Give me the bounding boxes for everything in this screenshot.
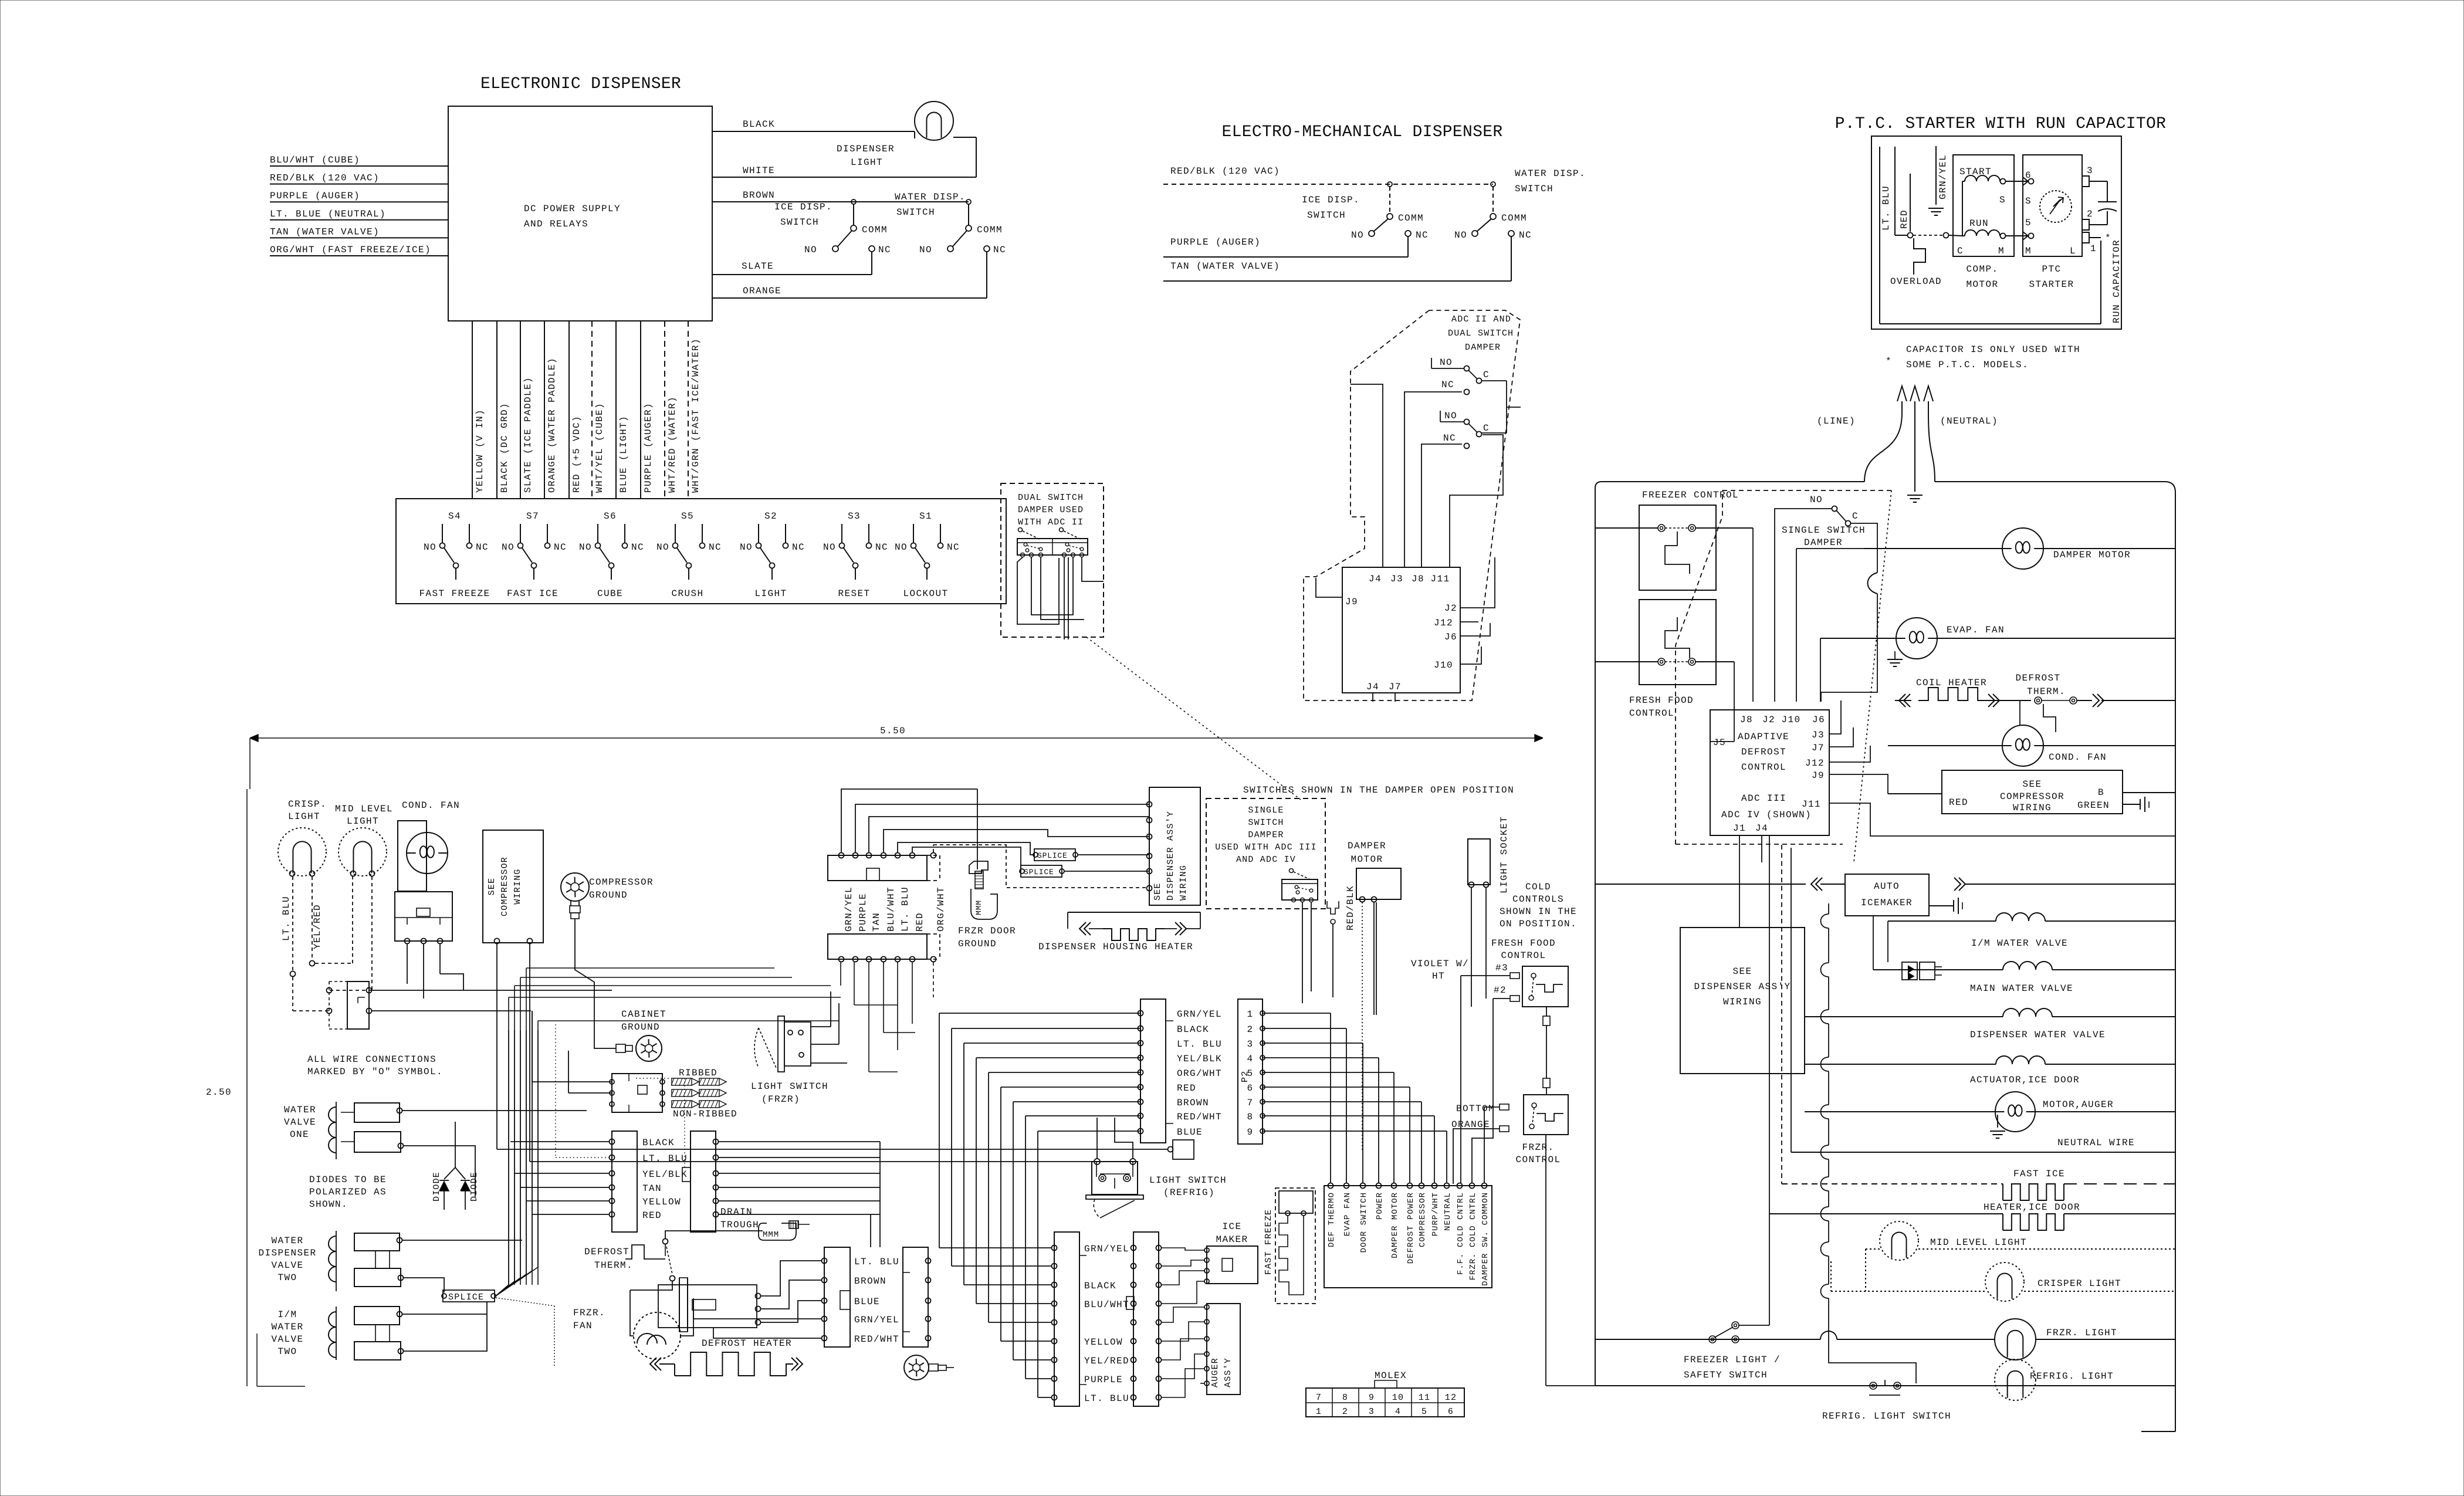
svg-text:FAST ICE: FAST ICE — [507, 588, 559, 599]
svg-text:ADC IV (SHOWN): ADC IV (SHOWN) — [1721, 810, 1812, 820]
svg-text:J11: J11 — [1802, 799, 1821, 810]
svg-text:GRN/YEL: GRN/YEL — [1084, 1244, 1129, 1254]
svg-text:LT. BLU: LT. BLU — [281, 896, 292, 941]
svg-text:RED: RED — [915, 912, 925, 932]
svg-text:9: 9 — [1369, 1393, 1375, 1403]
svg-text:FRZR.: FRZR. — [573, 1308, 605, 1318]
svg-text:ICE DISP.: ICE DISP. — [774, 202, 832, 212]
svg-text:COND. FAN: COND. FAN — [402, 800, 460, 811]
svg-text:RED: RED — [1949, 797, 1968, 808]
svg-text:AND RELAYS: AND RELAYS — [524, 219, 588, 229]
svg-text:J1: J1 — [1733, 823, 1746, 834]
svg-text:AUGER: AUGER — [1210, 1358, 1220, 1387]
svg-text:BROWN: BROWN — [1177, 1098, 1209, 1108]
svg-text:NC: NC — [993, 245, 1006, 255]
svg-text:RED/WHT: RED/WHT — [1177, 1112, 1222, 1122]
svg-text:COMPRESSOR: COMPRESSOR — [500, 857, 510, 916]
svg-text:LT. BLU: LT. BLU — [1084, 1393, 1129, 1404]
svg-text:2: 2 — [1342, 1407, 1348, 1417]
svg-text:J10: J10 — [1781, 715, 1800, 725]
svg-text:LIGHT: LIGHT — [347, 816, 379, 827]
svg-text:DAMPER USED: DAMPER USED — [1018, 505, 1084, 515]
svg-text:DAMPER: DAMPER — [1248, 830, 1284, 840]
svg-text:LIGHT: LIGHT — [754, 588, 787, 599]
svg-text:DAMPER: DAMPER — [1348, 841, 1386, 851]
svg-text:ADC II AND: ADC II AND — [1451, 314, 1511, 324]
svg-text:J3: J3 — [1812, 730, 1825, 740]
svg-text:EVAP FAN: EVAP FAN — [1343, 1192, 1352, 1236]
svg-text:YEL/BLK: YEL/BLK — [642, 1169, 688, 1180]
svg-text:SPLICE: SPLICE — [1037, 851, 1068, 860]
svg-text:WATER: WATER — [271, 1236, 303, 1246]
svg-text:BLACK: BLACK — [642, 1138, 675, 1148]
svg-text:NON-RIBBED: NON-RIBBED — [673, 1109, 737, 1119]
svg-text:M: M — [2025, 246, 2032, 256]
svg-text:NEUTRAL WIRE: NEUTRAL WIRE — [2057, 1138, 2135, 1148]
svg-text:WHITE: WHITE — [743, 165, 775, 176]
svg-text:BLU/WHT (CUBE): BLU/WHT (CUBE) — [270, 155, 360, 165]
svg-text:RED/BLK: RED/BLK — [1345, 885, 1356, 930]
svg-text:MAIN WATER VALVE: MAIN WATER VALVE — [1970, 983, 2073, 994]
svg-text:COND. FAN: COND. FAN — [2049, 752, 2107, 763]
svg-text:NO: NO — [1810, 495, 1823, 505]
svg-text:RIBBED: RIBBED — [679, 1068, 717, 1078]
svg-text:NC: NC — [792, 542, 805, 553]
svg-text:J3: J3 — [1390, 574, 1403, 584]
svg-text:NC: NC — [1441, 380, 1454, 390]
svg-text:ICE: ICE — [1222, 1221, 1241, 1232]
svg-text:DEF THERMO: DEF THERMO — [1327, 1192, 1336, 1247]
svg-text:1: 1 — [1316, 1407, 1322, 1417]
svg-text:12: 12 — [1445, 1393, 1457, 1403]
svg-text:NO: NO — [424, 542, 436, 553]
svg-text:J7: J7 — [1812, 743, 1825, 753]
svg-text:CUBE: CUBE — [597, 588, 623, 599]
svg-text:EVAP. FAN: EVAP. FAN — [1947, 625, 2005, 635]
svg-text:CABINET: CABINET — [621, 1009, 666, 1020]
svg-text:VIOLET W/: VIOLET W/ — [1411, 959, 1469, 969]
svg-text:NO: NO — [1454, 230, 1467, 241]
svg-text:(REFRIG): (REFRIG) — [1163, 1187, 1215, 1198]
svg-text:5.50: 5.50 — [880, 726, 906, 736]
svg-text:YELLOW: YELLOW — [1084, 1337, 1123, 1348]
svg-text:WATER: WATER — [271, 1322, 303, 1332]
svg-text:VALVE: VALVE — [271, 1260, 303, 1271]
svg-text:ADAPTIVE: ADAPTIVE — [1738, 732, 1789, 742]
svg-text:DUAL SWITCH: DUAL SWITCH — [1448, 329, 1514, 339]
svg-text:PURP/WHT: PURP/WHT — [1431, 1192, 1440, 1236]
svg-text:BLUE: BLUE — [854, 1297, 880, 1307]
svg-text:GROUND: GROUND — [621, 1022, 660, 1033]
svg-text:8: 8 — [1247, 1112, 1253, 1122]
svg-text:BLACK: BLACK — [743, 119, 775, 130]
svg-text:ADC III: ADC III — [1741, 793, 1786, 804]
svg-text:LT. BLU: LT. BLU — [854, 1257, 899, 1267]
svg-text:NC: NC — [875, 542, 888, 553]
svg-text:RED/BLK (120 VAC): RED/BLK (120 VAC) — [1170, 166, 1280, 177]
svg-text:9: 9 — [1247, 1127, 1253, 1138]
svg-text:3: 3 — [2087, 165, 2093, 176]
svg-text:J4: J4 — [1369, 574, 1382, 584]
svg-text:COMPRESSOR: COMPRESSOR — [589, 877, 654, 888]
svg-text:DISPENSER HOUSING HEATER: DISPENSER HOUSING HEATER — [1038, 942, 1193, 952]
svg-text:J8: J8 — [1740, 715, 1753, 725]
svg-text:FRZR DOOR: FRZR DOOR — [958, 926, 1016, 936]
svg-text:J7: J7 — [1389, 682, 1402, 692]
svg-text:J5: J5 — [1713, 737, 1726, 748]
svg-text:NO: NO — [895, 542, 908, 553]
svg-text:SINGLE SWITCH: SINGLE SWITCH — [1782, 525, 1866, 536]
svg-text:START: START — [1959, 167, 1992, 177]
svg-text:PURPLE (AUGER): PURPLE (AUGER) — [270, 191, 360, 201]
svg-text:YEL/RED: YEL/RED — [1084, 1356, 1129, 1366]
svg-text:DUAL SWITCH: DUAL SWITCH — [1018, 493, 1084, 503]
svg-text:BOTTOM: BOTTOM — [1456, 1104, 1495, 1114]
svg-text:3: 3 — [1369, 1407, 1375, 1417]
svg-text:WIRING: WIRING — [513, 868, 523, 904]
svg-text:COMPRESSOR: COMPRESSOR — [1418, 1192, 1427, 1247]
svg-text:HT: HT — [1432, 971, 1445, 981]
svg-text:5: 5 — [1421, 1407, 1427, 1417]
svg-text:BLUE (LIGHT): BLUE (LIGHT) — [618, 415, 629, 493]
svg-text:TWO: TWO — [277, 1272, 297, 1283]
svg-text:YELLOW: YELLOW — [642, 1197, 681, 1207]
svg-text:LT. BLU: LT. BLU — [1177, 1039, 1222, 1050]
svg-text:RUN CAPACITOR: RUN CAPACITOR — [2111, 239, 2122, 323]
svg-text:*: * — [2105, 233, 2111, 243]
svg-text:CRISPER LIGHT: CRISPER LIGHT — [2037, 1278, 2121, 1289]
svg-text:PURPLE: PURPLE — [858, 893, 868, 932]
svg-text:SWITCHES SHOWN IN THE DAMPER O: SWITCHES SHOWN IN THE DAMPER OPEN POSITI… — [1243, 785, 1514, 796]
svg-text:FRESH FOOD: FRESH FOOD — [1629, 695, 1694, 706]
svg-text:S: S — [2025, 196, 2032, 207]
svg-text:CONTROL: CONTROL — [1501, 950, 1546, 961]
svg-text:NC: NC — [878, 245, 891, 255]
svg-text:DAMPER SW. COMMON: DAMPER SW. COMMON — [1481, 1192, 1490, 1286]
svg-text:LIGHT SOCKET: LIGHT SOCKET — [1499, 816, 1509, 893]
svg-text:DEFROST: DEFROST — [584, 1247, 629, 1257]
svg-text:GRN/YEL: GRN/YEL — [854, 1315, 899, 1325]
svg-text:DISPENSER: DISPENSER — [837, 144, 895, 154]
svg-text:PURPLE (AUGER): PURPLE (AUGER) — [643, 402, 654, 493]
svg-text:MOLEX: MOLEX — [1375, 1370, 1407, 1381]
svg-text:DISPENSER ASS'Y: DISPENSER ASS'Y — [1166, 811, 1176, 901]
svg-text:1: 1 — [2090, 243, 2097, 254]
svg-text:TAN (WATER VALVE): TAN (WATER VALVE) — [270, 226, 380, 237]
svg-text:MARKED BY "O" SYMBOL.: MARKED BY "O" SYMBOL. — [307, 1067, 443, 1077]
svg-text:SHOWN IN THE: SHOWN IN THE — [1500, 906, 1577, 917]
svg-text:GREEN: GREEN — [2077, 800, 2110, 811]
svg-text:BROWN: BROWN — [743, 190, 775, 201]
svg-text:POWER: POWER — [1375, 1192, 1385, 1220]
svg-text:AND ADC IV: AND ADC IV — [1236, 855, 1296, 865]
svg-text:MMM: MMM — [763, 1230, 779, 1240]
svg-text:DC POWER SUPPLY: DC POWER SUPPLY — [524, 204, 621, 214]
svg-text:FAST FREEZE: FAST FREEZE — [419, 588, 490, 599]
svg-text:GRN/YEL: GRN/YEL — [1938, 154, 1948, 199]
svg-text:6: 6 — [1448, 1407, 1454, 1417]
svg-text:ORG/WHT: ORG/WHT — [936, 886, 946, 932]
svg-text:4: 4 — [1395, 1407, 1401, 1417]
svg-text:BLU/WHT: BLU/WHT — [1084, 1299, 1129, 1310]
svg-text:GROUND: GROUND — [589, 890, 628, 901]
svg-text:DIODE: DIODE — [432, 1172, 442, 1201]
svg-text:FAN: FAN — [573, 1321, 593, 1331]
svg-text:8: 8 — [1342, 1393, 1348, 1403]
svg-text:I/M: I/M — [277, 1309, 297, 1320]
svg-text:MOTOR: MOTOR — [1351, 854, 1383, 865]
svg-text:NO: NO — [1440, 357, 1453, 368]
svg-text:C: C — [1483, 370, 1490, 380]
svg-text:COLD: COLD — [1525, 882, 1551, 892]
svg-text:10: 10 — [1392, 1393, 1404, 1403]
svg-text:J8: J8 — [1412, 574, 1424, 584]
svg-text:GRN/YEL: GRN/YEL — [1177, 1009, 1222, 1020]
svg-text:ACTUATOR,ICE DOOR: ACTUATOR,ICE DOOR — [1970, 1075, 2080, 1085]
svg-text:AUTO: AUTO — [1874, 881, 1900, 892]
svg-text:DAMPER MOTOR: DAMPER MOTOR — [2053, 550, 2131, 560]
svg-text:2.50: 2.50 — [206, 1087, 232, 1098]
svg-text:MOTOR,AUGER: MOTOR,AUGER — [2043, 1099, 2114, 1110]
svg-text:11: 11 — [1419, 1393, 1430, 1403]
svg-text:S2: S2 — [764, 511, 777, 522]
svg-text:CONTROLS: CONTROLS — [1512, 894, 1564, 905]
svg-text:SEE: SEE — [487, 878, 497, 896]
svg-text:LIGHT: LIGHT — [288, 811, 320, 822]
svg-text:(NEUTRAL): (NEUTRAL) — [1940, 416, 1998, 427]
svg-text:SINGLE: SINGLE — [1248, 805, 1284, 815]
svg-text:NO: NO — [656, 542, 669, 553]
svg-text:CONTROL: CONTROL — [1629, 708, 1674, 719]
svg-text:CAPACITOR IS ONLY USED WITH: CAPACITOR IS ONLY USED WITH — [1906, 344, 2080, 355]
svg-text:RED: RED — [642, 1210, 662, 1221]
svg-text:ON POSITION.: ON POSITION. — [1500, 919, 1577, 929]
svg-text:ELECTRONIC DISPENSER: ELECTRONIC DISPENSER — [480, 75, 681, 93]
svg-text:YEL/RED: YEL/RED — [312, 904, 323, 949]
svg-text:WIRING: WIRING — [1179, 865, 1189, 901]
svg-text:NC: NC — [554, 542, 567, 553]
svg-text:WIRING: WIRING — [2013, 803, 2052, 813]
svg-text:NC: NC — [1416, 230, 1429, 241]
svg-text:DRAIN: DRAIN — [720, 1207, 753, 1217]
svg-text:NO: NO — [1444, 411, 1457, 421]
svg-text:#3: #3 — [1495, 963, 1508, 973]
svg-text:GROUND: GROUND — [958, 939, 997, 949]
svg-text:S4: S4 — [448, 511, 461, 522]
svg-text:ORANGE (WATER PADDLE): ORANGE (WATER PADDLE) — [547, 357, 557, 493]
svg-text:REFRIG. LIGHT: REFRIG. LIGHT — [2030, 1371, 2114, 1382]
svg-text:NC: NC — [1519, 230, 1532, 241]
svg-text:WATER: WATER — [284, 1105, 316, 1115]
svg-text:COMP.: COMP. — [1966, 264, 1998, 275]
svg-text:DIODES TO BE: DIODES TO BE — [309, 1175, 387, 1185]
svg-text:J12: J12 — [1805, 758, 1825, 769]
svg-text:5: 5 — [1247, 1068, 1253, 1079]
svg-text:J9: J9 — [1345, 597, 1358, 607]
svg-text:GRN/YEL: GRN/YEL — [844, 886, 854, 932]
svg-text:PTC: PTC — [2042, 264, 2061, 275]
svg-text:MAKER: MAKER — [1216, 1234, 1248, 1245]
svg-text:SWITCH: SWITCH — [1307, 210, 1346, 221]
svg-text:BLACK: BLACK — [1177, 1024, 1209, 1035]
svg-text:SWITCH: SWITCH — [1515, 184, 1553, 194]
svg-text:*: * — [1886, 356, 1892, 367]
svg-text:L: L — [2070, 246, 2076, 256]
svg-text:NC: NC — [1443, 433, 1456, 444]
svg-text:1: 1 — [1247, 1009, 1253, 1020]
svg-text:SWITCH: SWITCH — [780, 217, 819, 228]
svg-text:COIL HEATER: COIL HEATER — [1916, 678, 1987, 688]
svg-text:SEE: SEE — [1732, 966, 1752, 977]
svg-text:BLUE: BLUE — [1177, 1127, 1203, 1138]
svg-text:DISPENSER ASS'Y: DISPENSER ASS'Y — [1694, 981, 1791, 992]
svg-text:COMM: COMM — [1398, 213, 1424, 224]
svg-text:STARTER: STARTER — [2029, 279, 2074, 290]
svg-text:LIGHT SWITCH: LIGHT SWITCH — [1149, 1175, 1227, 1186]
svg-text:WHT/GRN (FAST ICE/WATER): WHT/GRN (FAST ICE/WATER) — [691, 338, 701, 493]
svg-text:C: C — [1957, 246, 1964, 256]
svg-text:5: 5 — [2025, 218, 2032, 228]
svg-text:7: 7 — [1247, 1098, 1253, 1108]
svg-text:YELLOW (V IN): YELLOW (V IN) — [475, 409, 485, 493]
svg-text:J11: J11 — [1430, 574, 1450, 584]
svg-text:NO: NO — [579, 542, 592, 553]
svg-text:SPLICE: SPLICE — [1024, 868, 1054, 876]
svg-text:SAFETY SWITCH: SAFETY SWITCH — [1684, 1370, 1768, 1380]
svg-text:C: C — [1852, 511, 1859, 522]
svg-text:ICE DISP.: ICE DISP. — [1302, 195, 1360, 205]
svg-text:POLARIZED AS: POLARIZED AS — [309, 1187, 387, 1197]
svg-text:YEL/BLK: YEL/BLK — [1177, 1054, 1222, 1064]
svg-text:SEE: SEE — [2022, 779, 2042, 790]
svg-text:THERM.: THERM. — [2027, 686, 2066, 697]
svg-text:DEFROST: DEFROST — [1741, 747, 1786, 757]
svg-text:LIGHT: LIGHT — [851, 157, 883, 168]
svg-text:SOME P.T.C. MODELS.: SOME P.T.C. MODELS. — [1906, 360, 2029, 370]
svg-text:J6: J6 — [1444, 632, 1457, 642]
svg-text:TAN (WATER VALVE): TAN (WATER VALVE) — [1170, 261, 1280, 272]
svg-text:F.F. COLD CNTRL: F.F. COLD CNTRL — [1456, 1192, 1465, 1275]
svg-text:DAMPER: DAMPER — [1804, 537, 1843, 548]
svg-text:TROUGH: TROUGH — [720, 1220, 759, 1230]
svg-text:NC: NC — [476, 542, 489, 553]
svg-text:C: C — [1483, 423, 1490, 434]
svg-text:COMM: COMM — [862, 225, 888, 235]
svg-text:NC: NC — [947, 542, 960, 553]
svg-text:RED/BLK (120 VAC): RED/BLK (120 VAC) — [270, 173, 380, 184]
svg-text:COMM: COMM — [977, 225, 1003, 235]
svg-text:COMM: COMM — [1501, 213, 1527, 224]
svg-text:DAMPER: DAMPER — [1465, 343, 1501, 353]
svg-text:J2: J2 — [1444, 603, 1457, 614]
svg-text:J6: J6 — [1812, 715, 1825, 725]
svg-text:OVERLOAD: OVERLOAD — [1890, 276, 1942, 287]
svg-text:J2: J2 — [1762, 715, 1775, 725]
svg-text:SHOWN.: SHOWN. — [309, 1199, 348, 1210]
svg-text:RUN: RUN — [1969, 218, 1989, 229]
svg-text:LOCKOUT: LOCKOUT — [903, 588, 948, 599]
svg-text:S1: S1 — [919, 511, 932, 522]
svg-text:RED: RED — [1177, 1083, 1196, 1094]
svg-text:M: M — [1998, 246, 2005, 256]
svg-text:TWO: TWO — [277, 1346, 297, 1357]
svg-text:USED WITH ADC III: USED WITH ADC III — [1215, 842, 1316, 852]
svg-text:FRZR.: FRZR. — [1522, 1142, 1554, 1153]
svg-text:CONTROL: CONTROL — [1515, 1155, 1561, 1165]
svg-text:ALL WIRE CONNECTIONS: ALL WIRE CONNECTIONS — [307, 1054, 436, 1065]
svg-text:BLACK: BLACK — [1084, 1281, 1116, 1291]
svg-text:ICEMAKER: ICEMAKER — [1861, 898, 1913, 908]
svg-text:FREEZER CONTROL: FREEZER CONTROL — [1642, 490, 1739, 500]
svg-text:NO: NO — [823, 542, 836, 553]
svg-text:NO: NO — [502, 542, 515, 553]
svg-text:SPLICE: SPLICE — [448, 1292, 484, 1302]
svg-text:WATER DISP.: WATER DISP. — [1515, 168, 1586, 179]
svg-text:MID LEVEL: MID LEVEL — [335, 804, 393, 814]
svg-text:DEFROST HEATER: DEFROST HEATER — [702, 1338, 792, 1349]
svg-text:WHT/YEL (CUBE): WHT/YEL (CUBE) — [594, 402, 605, 493]
svg-text:NO: NO — [740, 542, 753, 553]
svg-text:J4: J4 — [1366, 682, 1379, 692]
svg-text:NO: NO — [919, 245, 932, 255]
svg-text:2: 2 — [2087, 209, 2093, 219]
svg-text:ORG/WHT (FAST FREEZE/ICE): ORG/WHT (FAST FREEZE/ICE) — [270, 245, 431, 255]
svg-text:SLATE: SLATE — [742, 261, 774, 272]
svg-text:ASS'Y: ASS'Y — [1223, 1358, 1233, 1387]
svg-text:RED: RED — [1899, 209, 1910, 229]
svg-text:FRESH FOOD: FRESH FOOD — [1491, 938, 1556, 949]
svg-text:NEUTRAL: NEUTRAL — [1443, 1192, 1453, 1231]
svg-text:SLATE (ICE PADDLE): SLATE (ICE PADDLE) — [523, 377, 533, 493]
svg-text:S3: S3 — [848, 511, 861, 522]
svg-text:DEFROST: DEFROST — [2015, 673, 2060, 683]
svg-text:MID LEVEL LIGHT: MID LEVEL LIGHT — [1930, 1237, 2027, 1248]
svg-text:NO: NO — [1351, 230, 1364, 241]
svg-text:DIODE: DIODE — [469, 1172, 479, 1201]
svg-text:J10: J10 — [1434, 660, 1453, 671]
svg-text:TAN: TAN — [642, 1183, 662, 1194]
svg-text:FRZR. COLD CNTRL: FRZR. COLD CNTRL — [1468, 1192, 1478, 1280]
svg-text:RED (+5 VDC): RED (+5 VDC) — [571, 415, 582, 493]
svg-text:MOTOR: MOTOR — [1966, 279, 1998, 290]
svg-text:CRUSH: CRUSH — [671, 588, 703, 599]
svg-text:3: 3 — [1247, 1039, 1253, 1050]
svg-text:LT. BLU: LT. BLU — [1881, 185, 1891, 231]
svg-text:VALVE: VALVE — [284, 1117, 316, 1128]
svg-text:VALVE: VALVE — [271, 1334, 303, 1345]
svg-text:S: S — [1999, 195, 2006, 205]
svg-text:SWITCH: SWITCH — [1248, 818, 1284, 828]
svg-text:RESET: RESET — [838, 588, 870, 599]
svg-text:LT. BLU: LT. BLU — [900, 886, 911, 932]
svg-text:DISPENSER WATER VALVE: DISPENSER WATER VALVE — [1970, 1030, 2106, 1040]
svg-text:NC: NC — [709, 542, 722, 553]
svg-text:(LINE): (LINE) — [1817, 416, 1856, 427]
svg-text:ONE: ONE — [290, 1129, 309, 1140]
svg-text:BROWN: BROWN — [854, 1276, 886, 1287]
svg-text:I/M WATER VALVE: I/M WATER VALVE — [1971, 938, 2068, 949]
svg-text:B: B — [2098, 787, 2104, 798]
svg-text:NC: NC — [631, 542, 644, 553]
svg-text:DEFROST POWER: DEFROST POWER — [1406, 1192, 1416, 1264]
svg-text:THERM.: THERM. — [594, 1260, 633, 1271]
svg-text:TAN: TAN — [871, 912, 882, 932]
svg-text:SWITCH: SWITCH — [896, 207, 935, 218]
svg-text:S7: S7 — [526, 511, 539, 522]
svg-text:#2: #2 — [1494, 985, 1507, 996]
svg-text:J9: J9 — [1812, 770, 1825, 781]
svg-text:COMPRESSOR: COMPRESSOR — [2000, 791, 2064, 802]
